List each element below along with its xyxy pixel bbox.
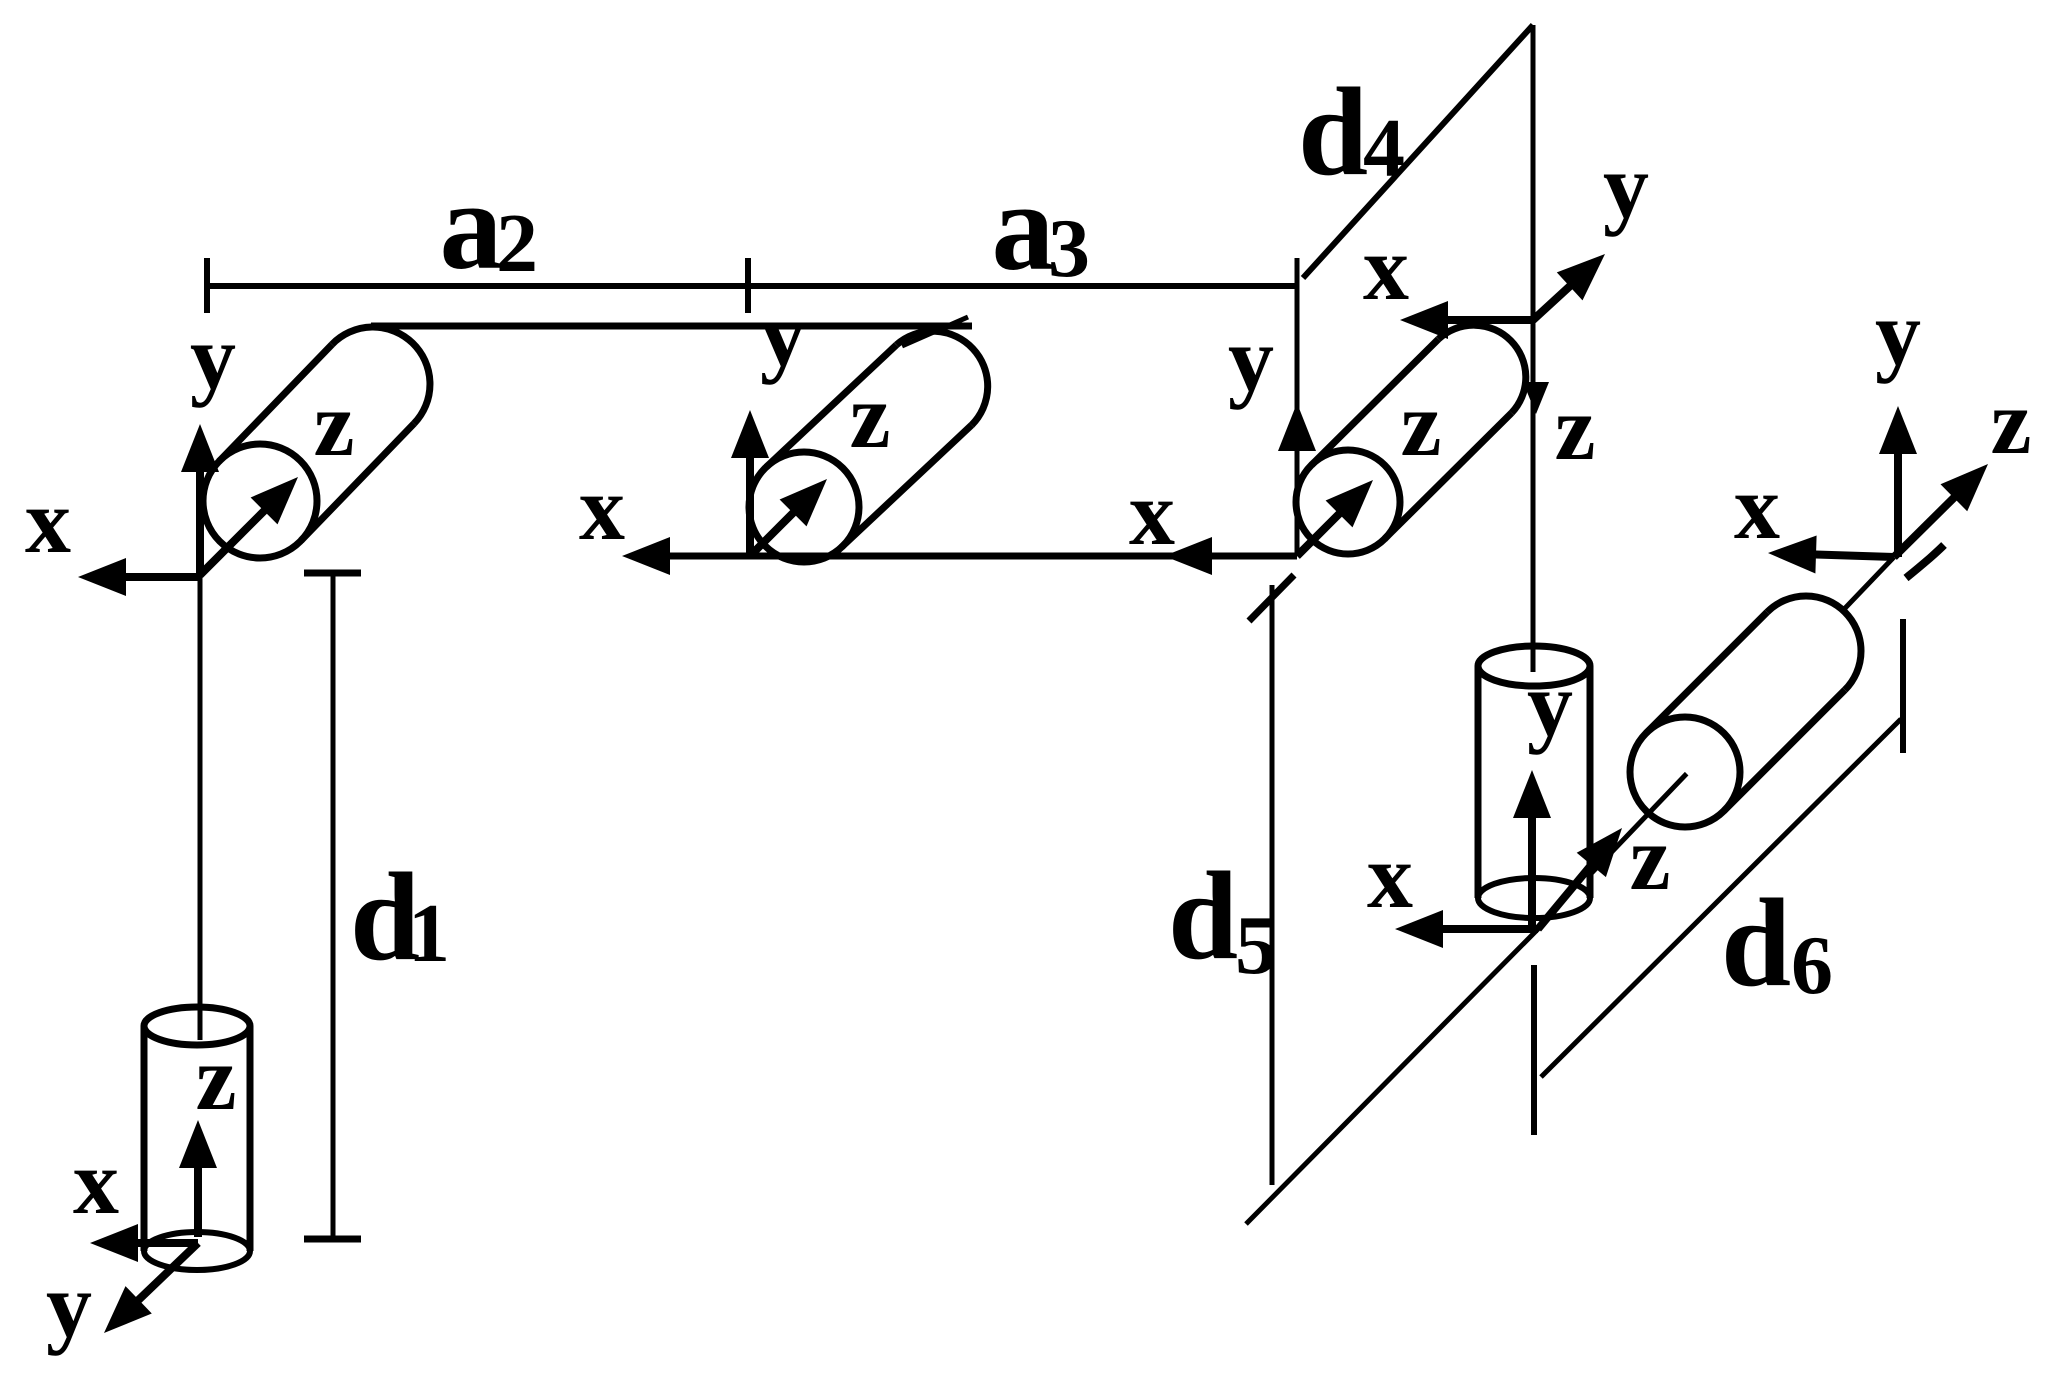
svg-text:y: y bbox=[1527, 653, 1573, 755]
joint J5 cylinder bbox=[1478, 646, 1590, 918]
svg-text:x: x bbox=[1363, 217, 1409, 319]
dimension line d1 bbox=[331, 573, 336, 1240]
tick top of d6 bbox=[1900, 619, 1906, 753]
svg-text:d: d bbox=[1168, 847, 1238, 986]
tick left end of a2 bbox=[204, 258, 210, 313]
frame4 z arrowhead (down) bbox=[1523, 382, 1549, 414]
svg-text:z: z bbox=[1991, 371, 2032, 473]
svg-text:2: 2 bbox=[496, 197, 538, 290]
dimension line a2-a3 bbox=[207, 283, 1297, 289]
svg-text:x: x bbox=[1129, 462, 1175, 564]
svg-text:y: y bbox=[1603, 135, 1649, 237]
dimension line d5 bbox=[1270, 585, 1275, 1185]
svg-text:y: y bbox=[1228, 308, 1274, 410]
frame5 z-axis arrow bbox=[1538, 859, 1596, 929]
frame5 x-axis arrow bbox=[1435, 925, 1538, 933]
svg-text:z: z bbox=[1555, 377, 1596, 479]
svg-text:y: y bbox=[1875, 282, 1921, 384]
frame1 y-axis arrow bbox=[196, 464, 204, 575]
frame1 x-axis arrow bbox=[118, 573, 200, 581]
svg-text:a: a bbox=[440, 157, 503, 296]
svg-text:x: x bbox=[25, 470, 71, 572]
frame0 y-axis arrow bbox=[133, 1243, 198, 1305]
svg-text:x: x bbox=[579, 457, 625, 559]
svg-text:3: 3 bbox=[1048, 202, 1090, 295]
tick top of d1 bbox=[304, 570, 361, 577]
svg-text:x: x bbox=[1367, 825, 1413, 927]
frame2 z-axis arrow bbox=[750, 507, 799, 556]
svg-text:z: z bbox=[1401, 373, 1442, 475]
tick bottom of d1 bbox=[304, 1236, 361, 1243]
frame1 z-axis arrow bbox=[200, 505, 270, 575]
svg-text:4: 4 bbox=[1363, 102, 1405, 195]
frame3 z-axis arrow bbox=[1297, 508, 1345, 556]
dimension line d6 diagonal bbox=[1541, 719, 1901, 1077]
frame2 y-axis arrow bbox=[746, 450, 754, 556]
joint J1 base cylinder bbox=[144, 1007, 250, 1270]
svg-text:a: a bbox=[992, 158, 1055, 297]
svg-text:z: z bbox=[314, 373, 355, 475]
tick slash top of d5 bbox=[1249, 575, 1294, 621]
svg-text:1: 1 bbox=[408, 887, 450, 980]
tick between a2 and a3 bbox=[745, 258, 751, 313]
frame4 y-axis arrow bbox=[1533, 281, 1576, 320]
wire: frame3 y-axis line up to dimension line bbox=[1295, 258, 1300, 556]
joint J6 cylinder bbox=[1646, 596, 1861, 811]
svg-text:5: 5 bbox=[1235, 899, 1277, 992]
tick bottom of d6 bbox=[1531, 965, 1537, 1135]
frame6 x-axis arrow bbox=[1808, 554, 1894, 557]
svg-text:z: z bbox=[196, 1027, 237, 1129]
svg-text:d: d bbox=[1298, 63, 1368, 202]
frame4 x-axis arrow bbox=[1440, 316, 1533, 324]
svg-text:y: y bbox=[46, 1254, 92, 1356]
svg-text:x: x bbox=[73, 1131, 119, 1233]
svg-text:z: z bbox=[1630, 807, 1671, 909]
wire: joint-5 z-axis long diagonal line bbox=[1246, 557, 1894, 1224]
frame0 z-axis arrow bbox=[194, 1160, 202, 1237]
frame3 x arrowhead bbox=[1164, 537, 1212, 575]
wire: link line between J2 and J3 cylinder tops bbox=[371, 323, 972, 330]
svg-text:x: x bbox=[1734, 456, 1780, 558]
frame2 x arrowhead bbox=[622, 537, 670, 575]
svg-text:6: 6 bbox=[1791, 919, 1833, 1012]
svg-text:y: y bbox=[190, 306, 236, 408]
svg-text:d: d bbox=[1721, 874, 1791, 1013]
wire: x-axis line from frame3 through frame2 bbox=[660, 553, 1297, 560]
wire: slash at right end of link line over J3 cap bbox=[902, 317, 968, 346]
frame0 x-axis arrow bbox=[130, 1239, 198, 1247]
frame6 y-axis arrow bbox=[1894, 446, 1902, 557]
frame6 z-axis arrow bbox=[1894, 492, 1960, 557]
joint J4 cylinder bbox=[1311, 325, 1525, 539]
tick small hook near frame6 origin bbox=[1906, 545, 1944, 578]
joint J2 cylinder bbox=[219, 327, 430, 541]
svg-text:y: y bbox=[760, 283, 806, 385]
joint J3 cylinder bbox=[766, 331, 987, 547]
wire: joint-1 axis from frame1 down into base cylinder bbox=[198, 575, 203, 1040]
svg-text:z: z bbox=[850, 365, 891, 467]
dimension line d4 diagonal bbox=[1303, 25, 1533, 278]
frame3 y arrowhead bbox=[1278, 403, 1316, 451]
frame5 y-axis arrow bbox=[1528, 810, 1536, 929]
wire: frame4 z-axis vertical line bbox=[1531, 25, 1536, 672]
